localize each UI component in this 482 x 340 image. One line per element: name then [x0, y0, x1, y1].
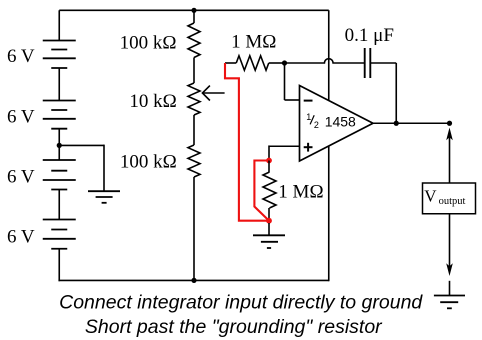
node red junction top of grounding resistor [266, 158, 272, 164]
wire junction down to inverting input [284, 63, 286, 100]
node junction dot bottom rail / divider chain [191, 278, 196, 283]
svg-text:100 kΩ: 100 kΩ [120, 152, 177, 173]
node junction dot feedback takeoff [394, 121, 399, 126]
node junction dot output [447, 121, 452, 126]
svg-text:0.1 μF: 0.1 μF [345, 25, 394, 46]
svg-text:1 MΩ: 1 MΩ [231, 31, 276, 52]
wire op-amp output [373, 122, 450, 124]
resistor R3 100 kOhm [188, 145, 200, 177]
wire non-inverting node down [268, 145, 270, 160]
svg-text:Short past the "grounding" res: Short past the "grounding" resistor [85, 316, 383, 338]
wire grounding resistor to bottom node [268, 208, 270, 221]
svg-text:output: output [439, 196, 466, 207]
wire feedback right segment [370, 62, 396, 64]
wire R1 to potentiometer [193, 58, 195, 84]
svg-text:1458: 1458 [325, 114, 356, 130]
wire dot to grounding resistor [268, 161, 270, 173]
battery B2 6V [43, 100, 76, 102]
capacitor C1 0.1 uF plates [364, 48, 366, 78]
svg-text:2: 2 [314, 120, 319, 130]
wire between B3 and B4 [58, 190, 60, 220]
svg-text:6 V: 6 V [7, 166, 35, 187]
potentiometer wiper arrow [203, 92, 224, 94]
battery B4 6V [43, 219, 76, 221]
op-amp V+ power pin wire [328, 10, 330, 100]
node junction dot inverting-input net [282, 60, 287, 65]
voltmeter V_output box [423, 183, 476, 214]
battery B3 6V [43, 159, 76, 161]
svg-text:1 MΩ: 1 MΩ [278, 182, 323, 203]
svg-text:V: V [424, 186, 437, 205]
wire red short from integrator input to ground node [225, 63, 267, 221]
resistor R1 100 kOhm [188, 23, 200, 58]
potentiometer R2 10 kOhm body [188, 83, 200, 115]
wire B2 to supply midpoint [58, 129, 60, 160]
wire input resistor right lead [269, 62, 285, 64]
svg-text:10 kΩ: 10 kΩ [129, 91, 176, 112]
node junction dot top rail / divider chain [191, 8, 196, 13]
wire R3 to bottom rail [193, 177, 195, 280]
voltmeter arrow down [449, 214, 451, 268]
op-amp inverting input minus sign [304, 100, 313, 102]
wire input resistor left lead [225, 62, 236, 64]
svg-text:6 V: 6 V [7, 106, 35, 127]
battery B1 6V [43, 40, 76, 42]
node red junction bottom of grounding resistor [266, 218, 272, 224]
wire between B1 and B2 [58, 68, 60, 101]
wire top rail to R1 [193, 10, 195, 23]
ground symbol below grounding resistor [253, 234, 285, 236]
svg-text:100 kΩ: 100 kΩ [120, 33, 177, 54]
svg-text:6 V: 6 V [7, 46, 35, 67]
node supply midpoint junction dot [57, 143, 62, 148]
svg-text:1: 1 [306, 112, 311, 122]
op-amp non-inverting input plus sign [304, 146, 313, 148]
voltmeter arrow up [449, 131, 451, 183]
ground symbol at supply midpoint [88, 190, 120, 192]
wire battery stack top lead [58, 10, 60, 40]
wire top rail from battery stack to op-amp V+ pin [59, 9, 329, 11]
wire supply midpoint to ground [59, 144, 104, 146]
wire non-inverting input [269, 145, 300, 147]
wire battery stack bottom lead [58, 249, 60, 281]
wire stub to output ground [449, 281, 451, 296]
wire red bypass around grounding resistor [254, 161, 268, 220]
resistor R5 1 MOhm grounding resistor [263, 172, 276, 208]
wire potentiometer to R3 [193, 115, 195, 145]
wire bottom rail to op-amp V- pin [58, 279, 328, 281]
resistor R4 1 MOhm integrator input [236, 56, 269, 71]
svg-text:Connect integrator input direc: Connect integrator input directly to gro… [59, 292, 423, 314]
op-amp U1 1/2 1458 triangle [300, 86, 374, 162]
wire feedback left segment with hop over V+ wire [285, 59, 365, 63]
wire bottom node to ground [268, 223, 270, 235]
svg-text:6 V: 6 V [7, 226, 35, 247]
ground symbol at output [434, 295, 465, 297]
